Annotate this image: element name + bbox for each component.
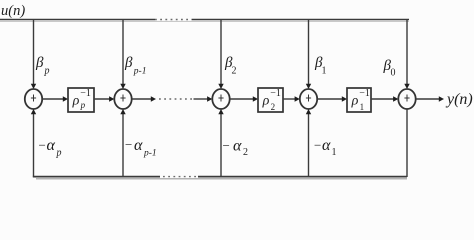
adder S3 (summing junction beta_2 / -alpha_2) [212, 89, 229, 109]
gain label beta_2 [224, 55, 237, 77]
wire: beta_0 tap into adder S5 [404, 20, 409, 90]
gain label beta_1 [314, 55, 327, 77]
node u(n) input label [1, 3, 25, 19]
wire: -alpha_1 feedback into adder S4 [306, 109, 311, 177]
svg-text:ρ: ρ [72, 93, 80, 108]
wire: adder S3 to delay D2 [230, 96, 258, 101]
svg-text:p-1: p-1 [133, 67, 147, 77]
svg-text:p: p [80, 100, 86, 110]
svg-text:ρ: ρ [262, 93, 270, 108]
wire: -alpha_2 feedback into adder S3 [218, 109, 223, 177]
wire: beta_p tap into adder S1 [31, 20, 36, 90]
gain label -alpha_p-1 [125, 137, 157, 159]
svg-text:β: β [35, 55, 44, 71]
svg-text:y(n): y(n) [445, 91, 473, 108]
wire: -alpha_p-1 feedback into adder S2 [120, 109, 125, 177]
delay D1 [68, 88, 94, 112]
wire: bottom feedback bus carrying y(n) [33, 177, 407, 179]
svg-text:2: 2 [232, 66, 237, 77]
wire: ellipsis for omitted sections [159, 98, 192, 100]
adder S4 (summing junction beta_1 / -alpha_1) [300, 89, 317, 109]
svg-text:−1: −1 [80, 88, 91, 99]
gain label -alpha_1 [314, 137, 337, 158]
gain label -alpha_p [39, 137, 62, 159]
gain label beta_0 [383, 58, 396, 79]
value label rho_p^-1 in D1 [72, 88, 91, 110]
svg-text:2: 2 [243, 147, 248, 158]
value label rho_1^-1 in D3 [351, 88, 370, 112]
svg-text:ρ: ρ [351, 93, 359, 108]
wire: output tap from adder S5 down to feedback bus [406, 109, 408, 177]
svg-text:u(n): u(n) [1, 3, 25, 19]
svg-text:1: 1 [360, 102, 365, 112]
wire: adder S4 to delay D3 [317, 96, 347, 101]
wire: beta_1 tap into adder S4 [306, 20, 311, 90]
svg-text:p: p [44, 66, 50, 77]
svg-text:α: α [322, 137, 331, 154]
svg-text:1: 1 [332, 147, 337, 158]
wire: beta_p-1 tap into adder S2 [120, 20, 125, 90]
gain label beta_p [35, 55, 50, 77]
value label rho_2^-1 in D2 [262, 88, 281, 112]
svg-text:β: β [124, 55, 133, 71]
svg-text:−: − [223, 138, 230, 153]
delay D2 [258, 88, 283, 112]
wire: adder S5 to output y(n) [416, 96, 444, 101]
delay D3 [347, 88, 371, 112]
adder S1 (summing junction beta_p / -alpha_p) [25, 89, 42, 109]
gain label beta_p-1 [124, 55, 146, 77]
wire: delay D1 to adder S2 [94, 96, 114, 101]
svg-text:α: α [47, 137, 56, 154]
wire: top input bus carrying u(n) [0, 20, 409, 22]
svg-text:α: α [233, 138, 242, 155]
svg-text:−: − [314, 138, 321, 153]
wire: adder S2 output into ellipsis [132, 96, 156, 101]
gain label -alpha_2 [223, 138, 249, 159]
svg-text:p: p [56, 148, 62, 159]
svg-text:α: α [134, 137, 143, 154]
node y(n) output label [445, 91, 473, 108]
wire: delay D3 to adder S5 [371, 96, 398, 101]
svg-text:−: − [125, 137, 132, 152]
svg-text:1: 1 [322, 66, 327, 77]
adder S5 (output summing junction beta_0) [398, 89, 415, 109]
svg-text:2: 2 [271, 102, 276, 112]
wire: -alpha_p feedback into adder S1 [31, 109, 36, 177]
wire: adder S1 to delay D1 [42, 96, 68, 101]
wire: beta_2 tap into adder S3 [218, 20, 223, 90]
wire: delay D2 to adder S4 [283, 96, 300, 101]
svg-text:p-1: p-1 [143, 149, 157, 159]
svg-text:−1: −1 [359, 88, 370, 99]
wire: ellipsis into adder S3 [194, 96, 213, 101]
adder S2 (summing junction beta_p-1 / -alpha_p-1) [114, 89, 131, 109]
svg-text:−: − [39, 138, 46, 153]
svg-text:−1: −1 [270, 88, 281, 99]
svg-text:0: 0 [391, 68, 396, 79]
